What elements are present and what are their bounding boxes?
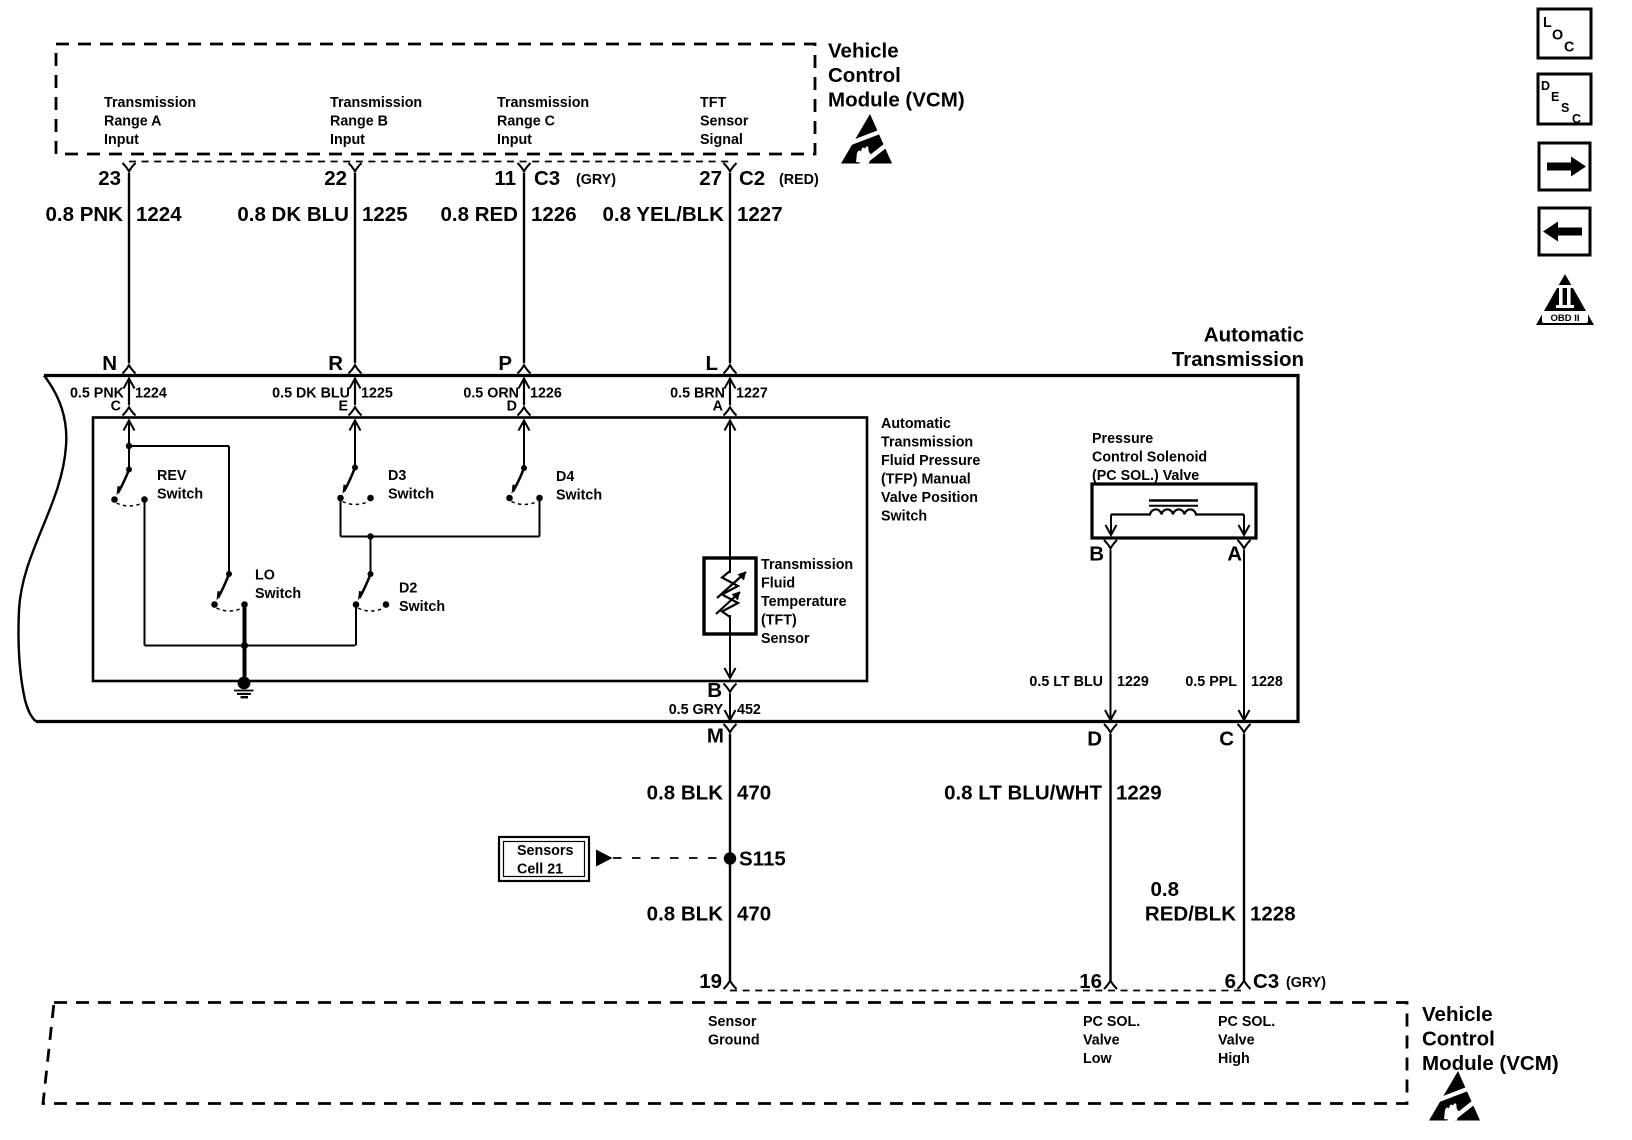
svg-text:Vehicle: Vehicle	[828, 40, 899, 63]
svg-text:Fluid: Fluid	[761, 576, 795, 592]
svg-text:Valve: Valve	[1083, 1032, 1120, 1048]
svg-text:C3: C3	[1253, 970, 1279, 993]
connector R at transmission case	[328, 352, 361, 389]
svg-text:Range B: Range B	[330, 114, 388, 130]
pin 19 (VCM)	[699, 970, 736, 993]
svg-text:REV: REV	[157, 468, 187, 484]
wire 0.8 RED/BLK 1228	[1145, 734, 1296, 981]
splice S115	[724, 847, 786, 870]
label: Transmission Range C Input	[497, 95, 589, 148]
svg-text:D2: D2	[399, 581, 417, 597]
svg-text:0.5 PPL: 0.5 PPL	[1185, 674, 1237, 690]
svg-text:0.5 GRY: 0.5 GRY	[669, 702, 724, 718]
node junction REV branch	[126, 443, 132, 449]
REV switch	[111, 467, 203, 507]
label: Transmission Fluid Temperature (TFT) Sensor	[761, 557, 853, 647]
svg-text:1226: 1226	[531, 203, 577, 226]
svg-text:Transmission: Transmission	[497, 95, 589, 111]
svg-text:E: E	[1551, 90, 1559, 104]
svg-text:B: B	[707, 679, 722, 702]
svg-text:E: E	[338, 399, 348, 415]
svg-text:Input: Input	[104, 132, 139, 148]
svg-text:470: 470	[737, 902, 771, 925]
svg-text:A: A	[1227, 543, 1242, 566]
svg-text:Ground: Ground	[708, 1032, 760, 1048]
svg-text:O: O	[1552, 28, 1563, 44]
svg-text:D3: D3	[388, 468, 406, 484]
svg-text:16: 16	[1079, 970, 1102, 993]
connector M at transmission case	[707, 710, 737, 748]
Vehicle Control Module (VCM) top box	[56, 44, 815, 154]
svg-text:C3: C3	[534, 167, 560, 190]
svg-text:Sensor: Sensor	[700, 114, 749, 130]
svg-text:(TFT): (TFT)	[761, 613, 797, 629]
wire 0.5 PPL 1228	[1185, 550, 1283, 720]
svg-text:Transmission: Transmission	[881, 435, 973, 451]
PC SOL valve box	[1092, 484, 1256, 538]
svg-text:19: 19	[699, 970, 722, 993]
D4 switch	[506, 465, 602, 505]
svg-text:L: L	[1543, 15, 1552, 31]
svg-text:Switch: Switch	[157, 487, 203, 503]
svg-text:0.8 YEL/BLK: 0.8 YEL/BLK	[602, 203, 724, 226]
svg-text:0.8 PNK: 0.8 PNK	[46, 203, 124, 226]
svg-text:Transmission: Transmission	[1172, 348, 1304, 371]
connector C at transmission case	[1219, 724, 1250, 751]
svg-text:Range C: Range C	[497, 114, 555, 130]
connector L at transmission case	[705, 352, 736, 389]
svg-text:22: 22	[324, 167, 347, 190]
VCM connector dashed line	[129, 161, 730, 163]
label: PC SOL. Valve Low	[1083, 1014, 1140, 1067]
svg-text:Automatic: Automatic	[1204, 324, 1304, 347]
svg-text:Switch: Switch	[556, 488, 602, 504]
svg-text:Module (VCM): Module (VCM)	[828, 89, 965, 112]
previous arrow button	[1539, 208, 1590, 255]
svg-text:Module (VCM): Module (VCM)	[1422, 1052, 1559, 1075]
svg-text:N: N	[102, 352, 117, 375]
svg-text:Switch: Switch	[255, 586, 301, 602]
svg-text:D: D	[507, 399, 517, 415]
wire 0.8 RED 1226	[441, 173, 577, 363]
svg-text:470: 470	[737, 781, 771, 804]
connector N at transmission case	[102, 352, 135, 389]
label: Transmission Range A Input	[104, 95, 196, 148]
solenoid pin A arrow	[1239, 515, 1250, 536]
svg-text:C: C	[1564, 40, 1574, 56]
label: TFT Sensor Signal	[700, 95, 749, 148]
svg-text:P: P	[498, 352, 512, 375]
dashed link to S115	[613, 857, 723, 859]
svg-text:1225: 1225	[362, 203, 408, 226]
svg-text:Transmission: Transmission	[761, 557, 853, 573]
wire 0.8 BLK 470 lower	[647, 902, 772, 925]
svg-text:Sensor: Sensor	[761, 631, 810, 647]
node junction D2 branch	[367, 533, 373, 539]
svg-text:1229: 1229	[1117, 674, 1149, 690]
svg-text:11: 11	[494, 167, 516, 190]
D3 switch	[337, 465, 434, 505]
svg-text:D4: D4	[556, 469, 574, 485]
wire REV to bottom bus	[145, 500, 356, 646]
svg-text:S115: S115	[739, 847, 786, 870]
svg-text:(TFP) Manual: (TFP) Manual	[881, 472, 971, 488]
connector P at transmission case	[498, 352, 530, 389]
wire 0.5 DK BLU 1225	[272, 379, 393, 415]
wire to D2 switch	[370, 537, 372, 575]
svg-text:D: D	[1541, 79, 1550, 93]
wire to D4 switch	[523, 421, 525, 469]
svg-text:Sensor: Sensor	[708, 1014, 757, 1030]
solenoid pin B arrow	[1106, 515, 1117, 536]
svg-text:C: C	[111, 399, 121, 415]
pin 22 (VCM C2)	[324, 163, 361, 190]
svg-text:0.8 LT BLU/WHT: 0.8 LT BLU/WHT	[944, 781, 1102, 804]
svg-text:B: B	[1089, 543, 1104, 566]
svg-text:LO: LO	[255, 568, 275, 584]
svg-text:1226: 1226	[530, 385, 562, 401]
wire 0.5 PNK 1224	[70, 379, 167, 415]
ground G at case	[234, 677, 254, 698]
svg-text:(PC SOL.) Valve: (PC SOL.) Valve	[1092, 468, 1199, 484]
label: Automatic Transmission Fluid Pressure (TFP) Manual Valve Position Switch	[881, 416, 980, 525]
svg-text:1229: 1229	[1116, 781, 1162, 804]
svg-text:Valve: Valve	[1218, 1032, 1255, 1048]
svg-text:Signal: Signal	[700, 132, 743, 148]
svg-text:6: 6	[1225, 970, 1236, 993]
svg-text:(RED): (RED)	[779, 172, 819, 188]
connector B of PC SOL	[1089, 540, 1117, 566]
svg-text:Valve Position: Valve Position	[881, 490, 978, 506]
svg-text:C: C	[1219, 728, 1234, 751]
svg-text:1228: 1228	[1250, 902, 1296, 925]
TFT sensor (thermistor)	[704, 558, 756, 634]
label: PC SOL. Valve High	[1218, 1014, 1275, 1067]
wire branch to LO switch	[129, 446, 229, 574]
svg-text:0.5 LT BLU: 0.5 LT BLU	[1029, 674, 1103, 690]
svg-text:Input: Input	[497, 132, 532, 148]
LO switch	[211, 568, 301, 612]
wire to REV switch	[128, 421, 130, 470]
svg-text:0.8 RED: 0.8 RED	[441, 203, 518, 226]
wire 0.8 LT BLU/WHT 1229	[944, 734, 1162, 981]
solenoid coil L1	[1111, 501, 1244, 515]
wire 0.5 ORN 1226	[463, 379, 561, 415]
label: Vehicle Control Module (VCM) top	[828, 40, 965, 112]
ESD sensitive symbol bottom	[1429, 1071, 1480, 1123]
wire 0.5 LT BLU 1229	[1029, 550, 1148, 720]
svg-text:Control: Control	[828, 64, 901, 87]
svg-text:Input: Input	[330, 132, 365, 148]
Automatic Transmission box outline	[18, 376, 1298, 722]
svg-text:Temperature: Temperature	[761, 594, 847, 610]
svg-text:0.8 BLK: 0.8 BLK	[647, 902, 724, 925]
svg-text:PC SOL.: PC SOL.	[1218, 1014, 1275, 1030]
wire to D3 switch	[354, 421, 356, 468]
svg-text:L: L	[705, 352, 718, 375]
svg-text:Control: Control	[1422, 1028, 1495, 1051]
svg-text:Sensors: Sensors	[517, 843, 573, 859]
svg-text:Automatic: Automatic	[881, 416, 951, 432]
wire 0.5 BRN 1227	[670, 379, 768, 415]
svg-text:Switch: Switch	[388, 487, 434, 503]
arrow from Sensors Cell 21	[596, 850, 613, 867]
wire LO to ground (thick)	[241, 605, 248, 682]
connector D at TFP switch	[518, 407, 531, 431]
svg-text:0.8: 0.8	[1151, 878, 1180, 901]
svg-text:1224: 1224	[135, 385, 167, 401]
svg-text:0.8 DK BLU: 0.8 DK BLU	[237, 203, 349, 226]
wire 0.5 GRY 452	[669, 694, 761, 719]
connector C at TFP switch	[123, 407, 136, 431]
svg-text:RED/BLK: RED/BLK	[1145, 902, 1236, 925]
svg-text:Switch: Switch	[399, 599, 445, 615]
wire 0.8 YEL/BLK 1227	[602, 173, 782, 363]
svg-text:Cell 21: Cell 21	[517, 862, 563, 878]
Vehicle Control Module (VCM) bottom box	[43, 1003, 1407, 1104]
connector E at TFP switch	[349, 407, 362, 431]
svg-text:TFT: TFT	[700, 95, 726, 111]
svg-text:(GRY): (GRY)	[576, 172, 616, 188]
svg-text:Pressure: Pressure	[1092, 431, 1153, 447]
TFP manual valve position switch box	[93, 418, 867, 682]
svg-text:Transmission: Transmission	[104, 95, 196, 111]
wire D2 to bottom bus	[355, 605, 357, 646]
wire 0.8 PNK 1224	[46, 173, 183, 363]
OBD II icon	[1536, 274, 1594, 325]
wire D3 to middle bus	[341, 498, 540, 537]
svg-text:452: 452	[737, 702, 761, 718]
svg-text:1227: 1227	[737, 203, 783, 226]
pin 16 (VCM)	[1079, 970, 1117, 993]
svg-text:1228: 1228	[1251, 674, 1283, 690]
wire 0.8 DK BLU 1225	[237, 173, 407, 363]
svg-text:0.8 BLK: 0.8 BLK	[647, 781, 724, 804]
label: Pressure Control Solenoid (PC SOL.) Valve	[1092, 431, 1207, 484]
pin 23 (VCM C2)	[98, 163, 135, 190]
svg-text:C2: C2	[739, 167, 765, 190]
pin 27 C2 (RED)	[699, 163, 819, 190]
D2 switch	[353, 571, 445, 615]
svg-text:Switch: Switch	[881, 509, 927, 525]
connector A at TFP switch	[724, 407, 737, 431]
label: Vehicle Control Module (VCM) bottom	[1422, 1003, 1559, 1075]
VCM bottom connector dashed line	[730, 990, 1244, 992]
svg-text:23: 23	[98, 167, 121, 190]
svg-text:Range A: Range A	[104, 114, 161, 130]
svg-text:M: M	[707, 725, 724, 748]
Sensors Cell 21 callout box	[499, 837, 589, 881]
svg-text:27: 27	[699, 167, 722, 190]
svg-text:1224: 1224	[136, 203, 182, 226]
Automatic Transmission title	[1172, 324, 1304, 372]
svg-text:R: R	[328, 352, 343, 375]
connector A of PC SOL	[1227, 540, 1250, 566]
wire 0.8 BLK 470 upper	[647, 734, 772, 981]
svg-text:A: A	[713, 399, 723, 415]
LOC button	[1538, 9, 1591, 58]
wire D4 to middle bus	[539, 498, 541, 537]
svg-text:S: S	[1561, 101, 1569, 115]
svg-text:C: C	[1572, 112, 1581, 126]
connector B at TFP switch bottom	[707, 668, 736, 702]
svg-text:High: High	[1218, 1051, 1250, 1067]
svg-text:(GRY): (GRY)	[1286, 975, 1326, 991]
pin 6 C3 (GRY) bottom	[1225, 970, 1327, 993]
label: Sensor Ground	[708, 1014, 760, 1049]
svg-text:Low: Low	[1083, 1051, 1112, 1067]
DESC button	[1538, 74, 1591, 126]
svg-text:Fluid Pressure: Fluid Pressure	[881, 453, 980, 469]
label: Transmission Range B Input	[330, 95, 422, 148]
wire TFT sensor signal	[729, 421, 731, 679]
svg-text:OBD II: OBD II	[1550, 313, 1579, 324]
next arrow button	[1539, 143, 1590, 190]
svg-text:Control Solenoid: Control Solenoid	[1092, 450, 1207, 466]
svg-text:PC SOL.: PC SOL.	[1083, 1014, 1140, 1030]
ESD sensitive symbol top	[841, 114, 892, 166]
connector D at transmission case	[1087, 724, 1117, 751]
pin 11 C3 (GRY)	[494, 163, 616, 190]
svg-text:Vehicle: Vehicle	[1422, 1003, 1493, 1026]
svg-text:Transmission: Transmission	[330, 95, 422, 111]
svg-text:1225: 1225	[361, 385, 393, 401]
svg-text:D: D	[1087, 728, 1102, 751]
svg-text:1227: 1227	[736, 385, 768, 401]
